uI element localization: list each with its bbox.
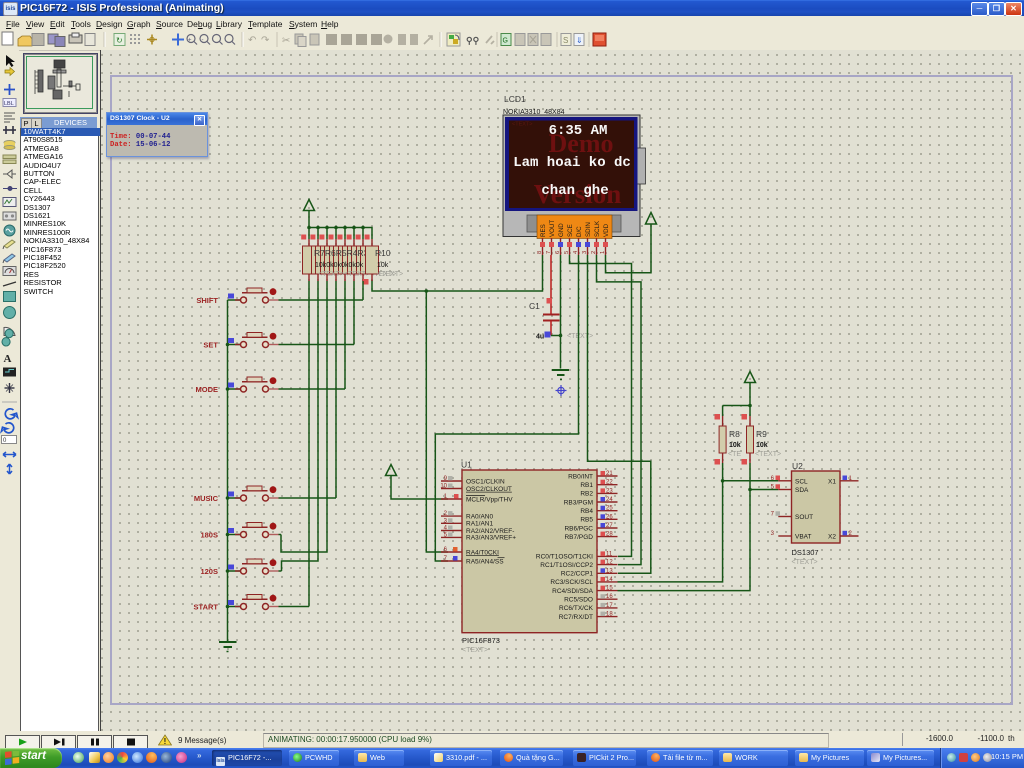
svg-text:RB0/INT: RB0/INT	[568, 473, 593, 480]
push button 180S	[200, 523, 281, 540]
svg-text:10k: 10k	[729, 442, 741, 449]
wire R4 to MUSIC	[335, 281, 337, 498]
svg-text:22: 22	[606, 480, 613, 486]
menu bar	[0, 16, 1024, 31]
push button SET	[203, 333, 354, 350]
svg-text:LBL: LBL	[4, 101, 14, 107]
push button 120S	[200, 559, 281, 576]
junction node R8/R9 top	[748, 404, 752, 408]
svg-text:VBAT: VBAT	[795, 534, 812, 541]
svg-text:MODE: MODE	[196, 385, 219, 394]
power symbol right of LCD	[646, 213, 657, 225]
capacitor C1	[529, 298, 593, 341]
svg-text:<TEXT>: <TEXT>	[755, 451, 781, 458]
svg-text:MCLR/Vpp/THV: MCLR/Vpp/THV	[466, 496, 513, 503]
svg-text:SET: SET	[203, 341, 218, 350]
svg-text:15: 15	[606, 586, 613, 592]
svg-text:180S: 180S	[200, 531, 218, 540]
wire RES net: LCD pin8 down, left to R10, junction, down to U1 RA4	[372, 255, 543, 552]
title bar	[0, 0, 1024, 16]
svg-text:✂: ✂	[282, 36, 290, 47]
wire RC3 to R8/SCL	[618, 481, 723, 582]
taskbar	[0, 748, 1024, 768]
wire SCL net to U2	[723, 480, 779, 482]
svg-text:25: 25	[606, 506, 613, 512]
svg-text:26: 26	[606, 514, 613, 520]
svg-text:X1: X1	[828, 478, 836, 485]
svg-text:RB7/PGD: RB7/PGD	[564, 534, 593, 541]
junction node C1/GND	[559, 334, 563, 338]
bus junction dots at button rows	[226, 343, 230, 609]
svg-text:21: 21	[606, 471, 613, 477]
svg-text:RC0/T1OSO/T1CKI: RC0/T1OSO/T1CKI	[536, 554, 593, 561]
svg-text:7: 7	[771, 512, 775, 518]
svg-text:<TEXT>: <TEXT>	[462, 647, 488, 654]
bus junction dots	[307, 226, 365, 230]
sidebar preview	[24, 54, 97, 113]
wire R6 to SET	[353, 281, 355, 345]
push button START	[194, 595, 309, 612]
svg-text:SHIFT: SHIFT	[196, 296, 218, 305]
svg-text:24: 24	[606, 497, 613, 503]
svg-text:!: !	[164, 737, 167, 746]
svg-text:↶: ↶	[248, 35, 256, 46]
svg-text:G: G	[503, 38, 508, 45]
junction node SDA	[748, 488, 752, 492]
svg-text:12: 12	[606, 560, 613, 566]
svg-text:RC5/SDO: RC5/SDO	[564, 597, 593, 604]
wire SDIN pin3 to U1 RC2 pin13	[588, 255, 651, 573]
svg-text:⇓: ⇓	[576, 36, 583, 45]
svg-text:R8: R8	[729, 429, 740, 439]
svg-text:X2: X2	[828, 534, 836, 541]
svg-text:OSC2/CLKOUT: OSC2/CLKOUT	[466, 486, 512, 493]
svg-text:17: 17	[606, 603, 613, 609]
svg-text:RB2: RB2	[580, 491, 593, 498]
svg-text:MUSIC: MUSIC	[194, 494, 219, 503]
svg-text:23: 23	[606, 488, 613, 494]
push button MODE	[196, 377, 346, 394]
svg-text:RB1: RB1	[580, 482, 593, 489]
ground bus left of buttons	[227, 300, 229, 642]
wire SDA net to U2	[750, 489, 778, 491]
svg-text:RA5/AN4/SS: RA5/AN4/SS	[466, 558, 504, 565]
svg-text:START: START	[194, 603, 219, 612]
svg-text:RC2/CCP1: RC2/CCP1	[561, 571, 594, 578]
svg-text:U2: U2	[792, 461, 803, 471]
power symbol above R8 R9	[723, 372, 756, 406]
svg-text:U1: U1	[461, 460, 472, 470]
svg-text:RC6/TX/CK: RC6/TX/CK	[559, 605, 594, 612]
ground symbol under C1	[552, 370, 569, 380]
svg-text:RB6/PGC: RB6/PGC	[564, 525, 593, 532]
resistor R10 body	[366, 246, 404, 278]
wire R2 to 120S (with jog)	[282, 281, 319, 571]
svg-text:16: 16	[606, 594, 613, 600]
svg-text:RB3/PGM: RB3/PGM	[564, 499, 593, 506]
svg-text:27: 27	[606, 523, 613, 529]
svg-text:10k: 10k	[756, 442, 768, 449]
svg-text:RC4/SDI/SDA: RC4/SDI/SDA	[552, 588, 593, 595]
svg-text:SDA: SDA	[795, 487, 809, 494]
wire R5 to MODE	[344, 281, 346, 389]
svg-text:<TE: <TE	[728, 451, 741, 458]
wire R3 to 180S (with jog)	[281, 281, 327, 552]
VCC bus on top of resistor pack	[309, 228, 372, 240]
junction node RES/R10/RA4	[425, 289, 429, 293]
svg-text:RA0/AN0: RA0/AN0	[466, 513, 493, 520]
power symbol above resistor pack	[304, 200, 315, 228]
resistor pack R1..R7 bodies	[303, 246, 397, 278]
wire R7 to SHIFT	[362, 281, 364, 300]
RTC U2 DS1307	[771, 461, 859, 566]
svg-text:11: 11	[606, 551, 613, 557]
wire GND pin6 down to junction and ground	[551, 255, 561, 369]
svg-text:S: S	[563, 36, 568, 45]
resistor pack top state squares	[301, 235, 369, 240]
svg-text:3: 3	[771, 531, 775, 537]
LCD1 display NOKIA3310_48X84	[503, 94, 646, 239]
wire VOUT to C1 (red, high)	[550, 255, 552, 314]
resistor pack pin stubs	[309, 239, 372, 281]
svg-text:SCL: SCL	[795, 478, 808, 485]
svg-text:13: 13	[606, 568, 613, 574]
toolbar	[0, 30, 1024, 51]
status bar	[0, 731, 1024, 748]
svg-text:RB4: RB4	[580, 508, 593, 515]
svg-text:RA3/AN3/VREF+: RA3/AN3/VREF+	[466, 535, 516, 542]
svg-text:14: 14	[606, 577, 613, 583]
svg-text:RC1/T1OSI/CCP2: RC1/T1OSI/CCP2	[540, 562, 593, 569]
svg-text:-: -	[202, 38, 204, 44]
wire SCLK pin2 to U1 RC1 pin12	[597, 255, 642, 565]
wire VDD pin1 to power arrow	[606, 224, 652, 273]
power symbol at U1 MCLR	[386, 465, 449, 500]
origin marker (blue crosshair)	[556, 385, 567, 396]
svg-text:<TEXT>: <TEXT>	[792, 559, 818, 566]
svg-text:R9: R9	[756, 429, 767, 439]
push button SHIFT	[196, 288, 363, 305]
LCD pin stubs 8..1 with numbers and state squares	[537, 238, 608, 255]
push button MUSIC	[194, 486, 336, 503]
svg-text:A: A	[4, 353, 12, 365]
resistor R8	[715, 406, 742, 481]
wire SCE pin5 to U1 RC0 pin11	[570, 255, 632, 556]
junction node SCL	[721, 479, 725, 483]
resistor R9	[742, 406, 782, 490]
left icon strip	[0, 50, 19, 731]
svg-text:⚲⚲: ⚲⚲	[466, 36, 480, 46]
U1 right pins	[536, 471, 618, 621]
U1 left pins	[440, 476, 516, 565]
svg-text:18: 18	[606, 612, 613, 618]
microcontroller U1 PIC16F873	[461, 460, 597, 655]
svg-text:OSC1/CLKIN: OSC1/CLKIN	[466, 478, 505, 485]
svg-text:28: 28	[606, 532, 613, 538]
svg-text:10: 10	[440, 484, 447, 490]
wire RC4 to R9/SDA	[618, 490, 751, 591]
svg-text:+: +	[188, 38, 192, 44]
wire D/C pin4 to U1 RA5	[435, 255, 578, 561]
svg-text:DS1307: DS1307	[792, 548, 819, 557]
R10 bottom state square	[363, 279, 369, 285]
svg-text:RC7/RX/DT: RC7/RX/DT	[559, 614, 593, 621]
ground symbol below button bus	[219, 642, 237, 652]
svg-text:RA4/T0CKI: RA4/T0CKI	[466, 549, 499, 556]
svg-text:RA1/AN1: RA1/AN1	[466, 521, 493, 528]
svg-text:120S: 120S	[200, 567, 218, 576]
svg-text:↻: ↻	[116, 36, 123, 45]
svg-text:SOUT: SOUT	[795, 514, 813, 521]
svg-text:RC3/SCK/SCL: RC3/SCK/SCL	[550, 579, 593, 586]
wire R1 to START	[308, 281, 310, 607]
stubs bus to squares	[309, 228, 363, 240]
svg-text:↷: ↷	[261, 35, 270, 46]
svg-text:RB5: RB5	[580, 517, 593, 524]
svg-text:PIC16F873: PIC16F873	[462, 636, 500, 645]
